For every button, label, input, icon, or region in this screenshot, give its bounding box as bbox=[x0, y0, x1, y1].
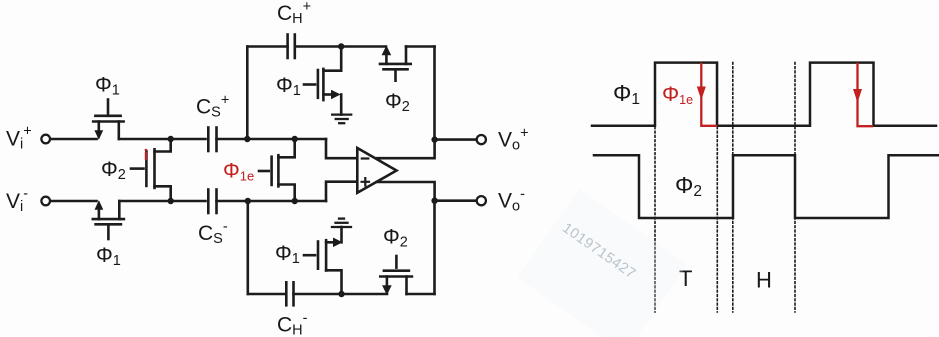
wire: left vertical of CH+ loop bbox=[246, 47, 249, 140]
dashed phase boundary H-start bbox=[732, 63, 734, 313]
wire: opamp top output bbox=[377, 140, 435, 159]
wire Vi+ terminal to switch M1 bbox=[51, 138, 97, 141]
wire: right vertical of CH+ loop bbox=[433, 47, 436, 140]
node: M3 drain on top rail bbox=[338, 43, 344, 49]
transistor M8 (Φ2 hold switch, bottom) bbox=[380, 256, 412, 294]
wire CH+ to M4 bbox=[295, 45, 386, 48]
wire: opamp inverting input step bbox=[326, 139, 357, 158]
waveform Φ1e falling edge 2 (red) bbox=[858, 64, 873, 126]
waveform Φ2 bbox=[594, 155, 938, 218]
node: M5 drain junction bbox=[292, 136, 298, 142]
node: CH- branch junction bbox=[245, 198, 251, 204]
capacitor Cs- bbox=[208, 190, 216, 214]
wire M1 to Cs+ bbox=[119, 138, 206, 141]
op-amp U1 bbox=[357, 148, 396, 193]
wire CH- to M8 bbox=[294, 293, 388, 296]
transistor M6 (Φ1 input switch on Vi-) bbox=[93, 201, 124, 239]
node: M2 source junction on bottom rail bbox=[168, 198, 174, 204]
ground (top) bbox=[332, 115, 351, 124]
waveform Φ1 bbox=[592, 63, 936, 126]
node: CH+ branch junction bbox=[244, 136, 250, 142]
transistor M5 (Φ1e early clock switch, middle) bbox=[259, 139, 295, 201]
terminal Vo- bbox=[477, 196, 486, 205]
transistor M3 (Φ1 reset switch to ground, top) bbox=[304, 47, 341, 115]
node: Vo+ junction bbox=[431, 136, 437, 142]
wire Vi- terminal to M6 bbox=[51, 200, 97, 203]
node: M5 source junction bbox=[292, 198, 298, 204]
node: Vo- junction bbox=[431, 198, 437, 204]
transistor M1 (Φ1 input switch on Vi+) bbox=[93, 100, 123, 140]
capacitor CH+ bbox=[288, 35, 295, 59]
capacitor Cs+ bbox=[208, 128, 216, 152]
node: M7 source on bottom rail bbox=[338, 291, 344, 297]
capacitor CH- bbox=[286, 282, 293, 305]
transistor M4 (Φ2 hold switch, top) bbox=[380, 47, 411, 81]
terminal Vo+ bbox=[477, 135, 486, 144]
terminal Vi- bbox=[41, 197, 50, 206]
dashed phase boundary T-start bbox=[654, 63, 656, 313]
waveform Φ1e falling edge 1 (red) bbox=[701, 64, 716, 126]
wire: to Vo+ terminal bbox=[435, 138, 477, 141]
ground (bottom, inverted) bbox=[332, 219, 351, 227]
terminal Vi+ bbox=[41, 135, 50, 144]
svg-text:H: H bbox=[756, 268, 772, 293]
wire: bottom rail to CH- bbox=[248, 293, 286, 296]
dashed phase boundary H-end bbox=[794, 63, 796, 313]
wire Cs- to opamp input node bbox=[217, 200, 327, 203]
watermark tint bbox=[517, 189, 687, 337]
transistor M7 (Φ1 reset switch to ground, bottom) bbox=[304, 227, 342, 294]
red artifact mark above M2 gate bbox=[145, 153, 147, 159]
wire: right vertical of CH- loop bbox=[433, 201, 436, 294]
wire: opamp non-inverting input step bbox=[326, 182, 357, 201]
dashed phase boundary T-end bbox=[716, 63, 718, 313]
wire: to Vo- terminal bbox=[435, 199, 477, 202]
wire Cs+ to opamp input node bbox=[217, 138, 327, 141]
wire: top rail to CH+ bbox=[247, 45, 287, 48]
node: M2 drain junction on top rail bbox=[168, 136, 174, 142]
wire M8 to output vertical bbox=[407, 293, 435, 296]
wire M6 to Cs- bbox=[119, 200, 205, 203]
wire M4 to output vertical bbox=[406, 45, 435, 48]
transistor M2 (Φ2 input shorting switch) bbox=[131, 139, 171, 201]
wire: opamp bottom output bbox=[377, 182, 435, 201]
wire: left vertical of CH- loop bbox=[247, 201, 250, 294]
